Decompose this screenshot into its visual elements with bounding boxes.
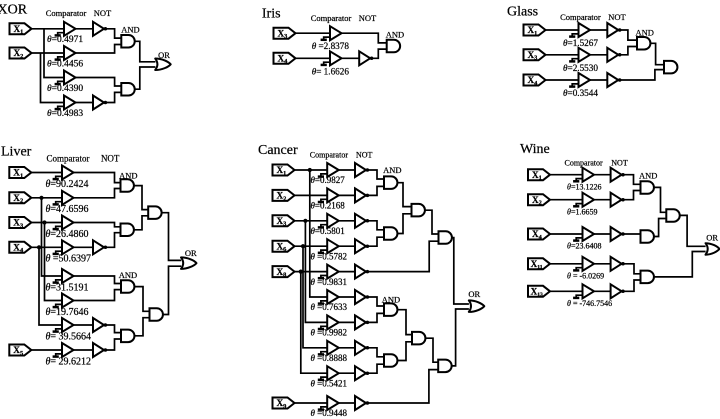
wire comparator3 to NOT3 (Wine) [594, 233, 611, 235]
comparator 6 (Liver) theta=19.7646 [53, 294, 74, 308]
AND gate 5 (Liver) [148, 206, 161, 219]
svg-text:θ =0.5421: θ =0.5421 [311, 378, 348, 388]
wire NOT row4 to AND2 bottom input (Liver) [106, 233, 121, 248]
svg-text:θ=23.6408: θ=23.6408 [567, 242, 601, 251]
AND gate 4 (Wine) [666, 209, 679, 222]
AND gate (Iris) [387, 40, 400, 53]
wire NOT5 row X8 to AND7 bottom input (Cancer) [368, 241, 439, 271]
AND gate 1 (XOR) [121, 35, 134, 48]
svg-text:θ=0.5801: θ=0.5801 [311, 226, 345, 236]
wire input row3 to comparator (Cancer) [295, 220, 328, 222]
svg-text:OR: OR [706, 233, 718, 243]
comparator 5 (Liver) theta=31.5191 [53, 269, 74, 283]
wire X1 branch down to comparator6 (Cancer) [310, 170, 327, 297]
wire NOT1 to AND1 top input (Glass) [620, 30, 637, 40]
wire comparator10 to NOT10 (Cancer) [339, 402, 355, 404]
AND gate 3 (Cancer) [384, 303, 397, 316]
NOT gate 5 (Cancer) [355, 265, 369, 279]
input tag X1 (XOR) [10, 23, 32, 35]
NOT gate 8 (Cancer) [355, 341, 369, 355]
svg-text:Glass: Glass [507, 5, 538, 20]
wire X3 to comparator3 (Liver) [31, 222, 62, 224]
svg-text:θ =50.6397: θ =50.6397 [46, 254, 92, 265]
wire comparator8 to NOT8 (Cancer) [339, 347, 355, 349]
svg-text:θ = -6.0269: θ = -6.0269 [567, 271, 604, 280]
svg-text:θ= 39.5664: θ= 39.5664 [46, 331, 92, 342]
wire X2 branch down to comparator5 (Liver) [42, 198, 63, 276]
svg-text:θ=1.6659: θ=1.6659 [567, 207, 597, 216]
comparator 3 (Cancer) theta=0.5801 [318, 214, 339, 228]
svg-text:NOT: NOT [611, 159, 628, 168]
comparator 10 (Cancer) theta=0.9448 [318, 396, 339, 410]
svg-text:θ =0.7633: θ =0.7633 [311, 302, 348, 312]
NOT gate 3 (Wine) [611, 227, 625, 241]
wire NOT1 to AND1 top input (Cancer) [368, 170, 384, 179]
wire X2 to comparator2 (Liver) [31, 197, 62, 199]
svg-text:Comparator: Comparator [564, 159, 603, 168]
wire comparator5 to NOT5 (Cancer) [339, 271, 355, 273]
input tag X13 (Wine) [528, 286, 550, 298]
wire AND4 to AND6 bottom input (Liver) [135, 318, 150, 336]
wire X1 to comparator1 (Liver) [31, 172, 62, 174]
wire comparator2 to NOT2 (Cancer) [339, 194, 355, 196]
svg-text:AND: AND [383, 165, 401, 175]
comparator 3 (Wine) theta=23.6408 [573, 227, 594, 241]
NOT gate 2 (XOR) [93, 96, 107, 110]
wire X2 branch down to comparator4 (XOR) [41, 53, 65, 103]
NOT gate 1 (Glass) [607, 23, 621, 37]
input tag X1 (Cancer) [273, 165, 295, 177]
input tag X4 (Iris) [274, 53, 296, 65]
AND gate 1 (Wine) [641, 181, 654, 194]
input tag X2 (Liver) [9, 192, 31, 204]
NOT gate 4 (Wine) [611, 257, 625, 271]
svg-text:AND: AND [121, 25, 139, 35]
comparator 2 (Glass) theta=2.5530 [569, 48, 590, 62]
input tag X2 (Cancer) [273, 190, 295, 202]
wire comparator5 to NOT5 (Wine) [594, 290, 611, 292]
wire X3 to comparator2 (Glass) [546, 54, 579, 56]
svg-text:θ=0.2168: θ=0.2168 [311, 201, 346, 211]
wire comparator2 to AND1 bottom input (Liver) [74, 189, 121, 198]
wire NOT2 to AND1 bottom input (Wine) [623, 191, 640, 200]
svg-text:NOT: NOT [94, 8, 112, 18]
comparator 4 (Liver) theta=50.6397 [53, 240, 74, 254]
wire comparator6 to NOT6 (Cancer) [339, 296, 355, 298]
input tag X5 (Liver) [9, 345, 31, 357]
svg-text:θ=13.1226: θ=13.1226 [567, 182, 601, 191]
NOT gate row7 (Liver) [93, 318, 107, 332]
NOT gate 10 (Cancer) [355, 396, 369, 410]
svg-text:θ =0.9982: θ =0.9982 [311, 328, 348, 338]
AND gate 6 (Cancer) [412, 332, 425, 345]
svg-text:NOT: NOT [101, 154, 120, 164]
wire X2 to comparator2 (XOR) [32, 52, 65, 54]
wire NOT2 to AND1 bottom input (Cancer) [368, 186, 384, 195]
NOT gate 2 (Wine) [611, 193, 625, 207]
wire comparator7 to NOT (Liver) [74, 324, 94, 326]
wire comparator1 to NOT1 (Glass) [590, 29, 607, 31]
wire comparator4 to NOT4 (Wine) [594, 263, 611, 265]
junction X1 branch (Cancer) [308, 168, 312, 172]
comparator 5 (Wine) theta=-746.7546 [573, 284, 594, 298]
svg-text:θ=90.2424: θ=90.2424 [46, 179, 89, 190]
wire NOT1 to AND1 top input (XOR) [106, 29, 122, 38]
NOT gate (Iris) [359, 51, 373, 65]
svg-text:θ=1.5267: θ=1.5267 [563, 38, 598, 48]
wire comparator8 to NOT (Liver) [74, 349, 94, 351]
wire NOT6 to AND3 top input (Cancer) [368, 297, 384, 306]
comparator 3 (Glass) theta=0.3544 [569, 73, 590, 87]
wire comparator2 to NOT2 (Wine) [594, 199, 611, 201]
wire comparator2 to NOT (Iris) [342, 57, 360, 59]
wire X3 to comparator1 (Iris) [296, 32, 331, 34]
wire AND6 to AND8 top input (Cancer) [426, 338, 439, 362]
svg-text:Iris: Iris [262, 7, 281, 22]
AND gate 1 (Cancer) [384, 176, 397, 189]
svg-text:XOR: XOR [0, 3, 28, 18]
wire comparator3 to NOT3 (Cancer) [339, 220, 355, 222]
svg-text:NOT: NOT [608, 12, 626, 22]
wire NOT3 to AND2 input (Wine) [623, 233, 640, 235]
NOT gate 4 (Cancer) [355, 239, 369, 253]
AND gate 4 (Cancer) [384, 354, 397, 367]
input tag X1 (Liver) [9, 167, 31, 179]
AND gate 2 (Glass) [664, 61, 677, 74]
svg-text:θ=0.4456: θ=0.4456 [47, 59, 83, 69]
svg-text:θ=0.9827: θ=0.9827 [311, 175, 346, 185]
wire X1 to comparator1 (Glass) [546, 29, 579, 31]
AND gate 3 (Wine) [641, 271, 654, 284]
wire NOT4 to AND2 bottom input (Cancer) [368, 237, 384, 246]
svg-text:θ=47.6596: θ=47.6596 [46, 204, 89, 215]
wire AND1 to AND4 top input (Wine) [654, 187, 666, 212]
OR gate (XOR) [155, 59, 171, 71]
NOT gate 6 (Cancer) [355, 290, 369, 304]
svg-text:θ=31.5191: θ=31.5191 [46, 282, 89, 293]
wire AND2 to OR bottom input (XOR) [135, 67, 156, 89]
wire comparator1 to NOT1 (Cancer) [339, 169, 355, 171]
comparator 9 (Cancer) theta=0.5421 [318, 366, 339, 380]
NOT gate row8 (Liver) [93, 343, 107, 357]
NOT gate 3 (Cancer) [355, 214, 369, 228]
wire AND2 to AND5 bottom input (Cancer) [398, 214, 412, 234]
wire AND6 to OR bottom input (Liver) [163, 266, 181, 314]
AND gate 2 (Liver) [121, 224, 134, 237]
svg-text:Comparator: Comparator [310, 150, 349, 159]
svg-text:AND: AND [119, 270, 137, 280]
NOT gate 5 (Wine) [611, 284, 625, 298]
input tag X2 (Wine) [528, 194, 550, 206]
wire AND2 to AND5 bottom input (Liver) [134, 216, 148, 230]
wire NOT5 to AND3 bottom input (Wine) [623, 280, 640, 291]
AND gate 8 (Cancer) [438, 360, 451, 373]
svg-text:θ =0.5782: θ =0.5782 [311, 251, 348, 261]
wire AND3 to AND6 top input (Cancer) [398, 310, 413, 335]
svg-text:Cancer: Cancer [258, 143, 298, 158]
wire NOT7 to AND3 bottom input (Cancer) [368, 313, 384, 322]
input tag X11 (Wine) [528, 258, 550, 270]
wire input row4 to comparator (Wine) [550, 263, 583, 265]
comparator 7 (Cancer) theta=0.9982 [318, 315, 339, 329]
wire comparator9 to NOT9 (Cancer) [339, 372, 355, 374]
OR gate (Cancer) [469, 300, 485, 312]
wire NOT9 to AND4 bottom input (Cancer) [368, 364, 384, 373]
wire X4 branch down to comparator7 (Liver) [39, 247, 62, 325]
wire NOT10 row X9 to AND8 bottom input (Cancer) [368, 370, 439, 403]
svg-text:θ = -746.7546: θ = -746.7546 [567, 299, 612, 308]
comparator 4 (Cancer) theta=0.5782 [318, 239, 339, 253]
AND gate 4 (Liver) [121, 330, 134, 343]
wire AND5 to OR top input (Liver) [162, 213, 182, 261]
comparator 4 (XOR) theta=0.4983 [55, 96, 76, 110]
svg-text:NOT: NOT [356, 150, 373, 159]
input tag X6 (Cancer) [273, 241, 295, 253]
AND gate 2 (XOR) [121, 83, 134, 96]
input tag X1 (Glass) [524, 25, 546, 37]
input tag X3 (Iris) [274, 28, 296, 40]
wire AND8 to OR bottom input (Cancer) [452, 309, 469, 366]
comparator 3 (XOR) theta=0.4390 [55, 71, 76, 85]
wire AND4 to OR top input (Wine) [680, 215, 706, 246]
wire comparator4 to NOT (Liver) [74, 246, 94, 248]
wire comparator3 to AND2 top input (Liver) [74, 223, 121, 227]
wire input row4 to comparator (Cancer) [295, 245, 328, 247]
wire X8 branch down to comparator9 (Cancer) [301, 272, 327, 374]
comparator 1 (Liver) theta=90.2424 [53, 166, 74, 180]
svg-text:θ =0.8888: θ =0.8888 [311, 353, 348, 363]
wire NOT2 to AND2 bottom input (XOR) [106, 92, 122, 102]
wire input row2 to comparator (Cancer) [295, 194, 328, 196]
wire AND7 to OR top input (Cancer) [452, 238, 469, 304]
wire NOT2 to AND1 bottom input (Glass) [620, 47, 637, 55]
comparator 2 (Cancer) theta=0.2168 [318, 188, 339, 202]
comparator 1 (Cancer) theta=0.9827 [318, 163, 339, 177]
AND gate 7 (Cancer) [439, 231, 452, 244]
svg-text:Comparator: Comparator [560, 12, 601, 22]
comparator 8 (Liver) theta=29.6212 [53, 343, 74, 357]
wire X5 to comparator8 (Liver) [31, 349, 62, 351]
input tag X3 (Glass) [524, 49, 546, 61]
svg-text:θ=2.5530: θ=2.5530 [563, 63, 598, 73]
NOT gate 2 (Glass) [607, 48, 621, 62]
wire AND3 to AND6 top input (Liver) [135, 287, 150, 312]
junction X8 branch (Cancer) [299, 270, 303, 274]
wire NOT4 to AND3 top input (Wine) [623, 264, 640, 274]
comparator 5 (Cancer) theta=0.9831 [318, 265, 339, 279]
svg-text:θ =2.8378: θ =2.8378 [312, 41, 350, 51]
wire input row1 to comparator (Wine) [550, 174, 583, 176]
wire comparator1 to NOT1 (Wine) [594, 174, 611, 176]
comparator 1 (Wine) theta=13.1226 [573, 168, 594, 182]
svg-text:θ= 29.6212: θ= 29.6212 [46, 356, 92, 367]
input tag X1 (Wine) [528, 169, 550, 181]
wire comparator1 to AND top input (Iris) [342, 33, 387, 43]
wire comparator4 to NOT2 (XOR) [76, 102, 94, 104]
input tag X3 (Cancer) [273, 215, 295, 227]
comparator 3 (Liver) theta=26.4860 [53, 216, 74, 230]
junction X3 branch (Liver) [42, 220, 46, 224]
AND gate 1 (Liver) [121, 179, 134, 192]
svg-text:Liver: Liver [1, 145, 32, 160]
wire comparator1 to NOT1 (XOR) [76, 28, 94, 30]
input tag X4 (Liver) [9, 242, 31, 254]
wire comparator2 to NOT2 (Glass) [590, 54, 607, 56]
NOT gate 1 (XOR) [93, 22, 107, 36]
junction X3 branch (Cancer) [303, 219, 307, 223]
svg-text:θ=0.4983: θ=0.4983 [47, 109, 83, 119]
wire input row3 to comparator (Wine) [550, 233, 583, 235]
svg-text:Comparator: Comparator [47, 154, 90, 164]
svg-text:θ=0.4390: θ=0.4390 [47, 84, 83, 94]
svg-text:θ=19.7646: θ=19.7646 [46, 307, 89, 318]
NOT gate 9 (Cancer) [355, 366, 369, 380]
OR gate (Liver) [181, 257, 197, 269]
wire comparator3 to AND2 top input (XOR) [76, 78, 122, 87]
wire X3 branch down to comparator6 (Liver) [45, 223, 63, 301]
NOT gate 2 (Cancer) [355, 188, 369, 202]
svg-text:Comparator: Comparator [46, 8, 87, 18]
wire AND1 to AND2 top input (Glass) [651, 43, 665, 64]
AND gate 3 (Liver) [121, 280, 134, 293]
wire NOT8 to AND4 top input (Cancer) [368, 348, 384, 357]
wire NOT row7 to AND4 top input (Liver) [106, 325, 121, 333]
wire NOT to AND bottom input (Iris) [372, 49, 387, 58]
wire X4 to comparator3 (Glass) [546, 79, 579, 81]
wire input row5 to comparator (Wine) [550, 290, 583, 292]
wire NOT row8 to AND4 bottom input (Liver) [106, 339, 121, 350]
comparator 6 (Cancer) theta=0.7633 [318, 290, 339, 304]
NOT gate row4 (Liver) [93, 240, 107, 254]
comparator 2 (Liver) theta=47.6596 [53, 191, 74, 205]
comparator 2 (Wine) theta=1.6659 [573, 193, 594, 207]
wire AND1 to OR top input (XOR) [135, 41, 156, 62]
svg-text:Wine: Wine [520, 142, 550, 157]
wire comparator4 to NOT4 (Cancer) [339, 245, 355, 247]
input tag X9 (Cancer) [273, 398, 295, 410]
junction X4 branch (Liver) [37, 245, 41, 249]
wire comparator3 to NOT3 (Glass) [590, 79, 607, 81]
wire comparator5 to AND3 top input (Liver) [74, 276, 122, 284]
comparator 7 (Liver) theta=39.5664 [53, 318, 74, 332]
comparator 2 (Iris) theta=1.6626 [321, 51, 342, 65]
NOT gate 1 (Cancer) [355, 163, 369, 177]
svg-text:θ=0.4971: θ=0.4971 [47, 35, 83, 45]
wire X3 branch down to comparator7 (Cancer) [305, 221, 327, 323]
junction X2 branch (Liver) [39, 196, 43, 200]
svg-text:AND: AND [386, 29, 404, 39]
svg-text:θ=26.4860: θ=26.4860 [46, 229, 89, 240]
wire X4 to comparator2 (Iris) [296, 57, 331, 59]
wire X6 branch down to comparator8 (Cancer) [303, 246, 327, 348]
wire AND5 to AND7 top input (Cancer) [425, 210, 439, 234]
wire NOT3 to AND2 top input (Cancer) [368, 221, 384, 230]
svg-text:θ= 1.6626: θ= 1.6626 [312, 67, 350, 77]
svg-text:θ=0.3544: θ=0.3544 [563, 88, 598, 98]
wire AND3 to OR bottom input (Wine) [654, 252, 706, 277]
wire comparator2 to AND1 bottom input (XOR) [76, 45, 122, 54]
svg-text:OR: OR [185, 248, 197, 258]
svg-text:θ =0.9831: θ =0.9831 [311, 277, 348, 287]
junction X6 branch (Cancer) [301, 244, 305, 248]
NOT gate 7 (Cancer) [355, 315, 369, 329]
svg-text:OR: OR [468, 289, 480, 299]
wire comparator6 to AND3 bottom input (Liver) [74, 290, 122, 301]
AND gate 5 (Cancer) [412, 204, 425, 217]
input tag X8 (Cancer) [273, 266, 295, 278]
input tag X4 (Glass) [524, 75, 546, 87]
OR gate (Wine) [706, 243, 720, 255]
wire X1 branch down to comparator3 (XOR) [44, 29, 64, 78]
AND gate 1 (Glass) [637, 37, 650, 50]
comparator 1 (XOR) theta=0.4971 [55, 22, 76, 36]
AND gate 2 (Cancer) [384, 227, 397, 240]
svg-text:θ =0.9448: θ =0.9448 [311, 408, 348, 418]
wire NOT3 to AND2 bottom input (Glass) [620, 70, 664, 80]
comparator 2 (XOR) theta=0.4456 [55, 46, 76, 60]
wire AND2 to AND4 bottom input (Wine) [654, 219, 666, 237]
comparator 1 (Iris) theta=2.8378 [321, 26, 342, 40]
svg-text:AND: AND [639, 171, 657, 181]
AND gate 6 (Liver) [150, 308, 163, 321]
wire input row2 to comparator (Wine) [550, 199, 583, 201]
wire X1 to comparator1 (XOR) [32, 28, 65, 30]
wire comparator7 to NOT7 (Cancer) [339, 321, 355, 323]
svg-text:NOT: NOT [359, 13, 377, 23]
input tag X2 (XOR) [10, 48, 32, 60]
comparator 1 (Glass) theta=1.5267 [569, 23, 590, 37]
input tag X3 (Liver) [9, 217, 31, 229]
input tag X4 (Wine) [528, 229, 550, 241]
NOT gate 3 (Glass) [607, 73, 621, 87]
wire AND4 to AND6 bottom input (Cancer) [398, 342, 413, 361]
wire AND1 to AND5 top input (Cancer) [398, 183, 412, 207]
comparator 4 (Wine) theta=-6.0269 [573, 257, 594, 271]
svg-text:Comparator: Comparator [311, 13, 352, 23]
wire input row10 to comparator (Cancer) [295, 402, 328, 404]
wire AND1 to AND5 top input (Liver) [134, 186, 148, 210]
wire input row1 to comparator (Cancer) [295, 169, 328, 171]
NOT gate 1 (Wine) [611, 168, 625, 182]
wire input row5 to comparator (Cancer) [295, 271, 328, 273]
comparator 8 (Cancer) theta=0.8888 [318, 341, 339, 355]
wire X4 to comparator4 (Liver) [31, 246, 62, 248]
wire NOT1 to AND1 top input (Wine) [623, 175, 640, 185]
wire comparator1 to AND1 top input (Liver) [74, 173, 121, 183]
AND gate 2 (Wine) [641, 230, 654, 243]
